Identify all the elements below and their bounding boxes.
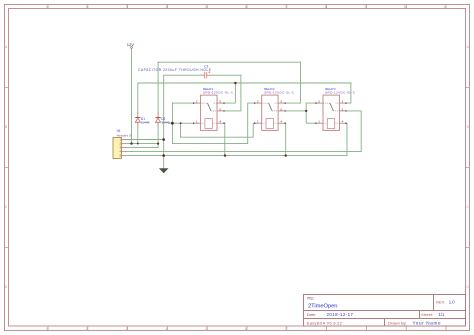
relay3 pin numbers <box>318 100 343 124</box>
svg-text:3: 3 <box>126 5 128 9</box>
svg-text:6: 6 <box>245 327 247 331</box>
wire relay1 pin1 left <box>172 122 193 124</box>
wire 12V vertical <box>131 49 133 144</box>
wire relay2 pin5 <box>286 110 307 112</box>
svg-text:4: 4 <box>166 5 168 9</box>
wire relay3 pin3 riser <box>347 83 351 103</box>
svg-text:Date:: Date: <box>307 312 317 317</box>
junction relay1 pin1 branch <box>180 122 182 124</box>
relay1 pins 1-5 stubs <box>193 103 225 123</box>
svg-text:3: 3 <box>126 327 128 331</box>
svg-text:EasyEDA V5.9.22: EasyEDA V5.9.22 <box>307 320 343 325</box>
power flag 12V <box>127 42 134 48</box>
junction relay1 pin1 net <box>171 122 174 125</box>
svg-text:2: 2 <box>86 5 88 9</box>
svg-text:SRD-12VDC-SL-C: SRD-12VDC-SL-C <box>203 90 234 94</box>
wire rail D1 y83 <box>138 82 351 84</box>
svg-text:B: B <box>5 125 7 129</box>
svg-text:5: 5 <box>205 5 207 9</box>
wire relay1 pin2 left <box>172 103 193 144</box>
wire header pin1 row <box>126 139 164 141</box>
wire header pin2 row <box>126 143 158 145</box>
svg-text:1: 1 <box>46 327 48 331</box>
wire header pin4 row to relay3 pin5 <box>126 111 361 152</box>
svg-text:1: 1 <box>46 5 48 9</box>
relay RELAY1 <box>193 95 225 130</box>
svg-text:Sheet:: Sheet: <box>421 312 434 317</box>
svg-text:7: 7 <box>285 327 287 331</box>
wire U2 bottom <box>172 103 254 144</box>
junction GND pin5 <box>162 154 165 157</box>
wire stub near junction <box>169 122 173 124</box>
relay1 pin numbers <box>196 100 221 124</box>
svg-text:1N4448: 1N4448 <box>161 121 170 125</box>
title block texts <box>307 296 315 300</box>
svg-text:SRD-12VDC-SL-C: SRD-12VDC-SL-C <box>325 90 356 94</box>
junction D2 anode <box>157 143 159 145</box>
relay RELAY3 <box>315 95 346 130</box>
wire relay3 pin2 pin1 link <box>306 103 315 123</box>
relay3 switch contacts <box>323 103 339 123</box>
svg-text:1.0: 1.0 <box>449 299 455 304</box>
wire gnd vertical <box>163 75 165 168</box>
svg-text:TITLE:: TITLE: <box>307 296 315 300</box>
junction relay1 pin3 rail <box>234 82 236 84</box>
svg-text:6: 6 <box>245 5 247 9</box>
wire cap to relay1 pin5 <box>225 75 241 111</box>
wire D1 vertical upper <box>137 83 139 112</box>
wire rail D2-top y62 <box>158 61 300 63</box>
relay3 pins 1-5 stubs <box>315 103 346 123</box>
svg-text:Header 5: Header 5 <box>117 133 132 137</box>
relay RELAY2 <box>254 95 286 130</box>
svg-text:H1: H1 <box>117 129 121 133</box>
header H1 pin numbers <box>119 138 121 158</box>
diode D1 <box>135 112 140 125</box>
wire cap rail y75 right <box>211 74 241 76</box>
junction relay2 pin5 relay3 <box>305 110 307 112</box>
junction relay2 pin4 gnd <box>285 154 287 156</box>
svg-text:CAPACITOR 2200uF THROUGH HOLE: CAPACITOR 2200uF THROUGH HOLE <box>138 68 211 72</box>
svg-text:4: 4 <box>166 327 168 331</box>
wire D2 vertical upper <box>157 62 159 112</box>
junction D1 anode <box>137 143 139 145</box>
wire D2 vertical lower <box>157 126 159 144</box>
svg-text:Drawn By:: Drawn By: <box>388 320 407 325</box>
svg-text:2: 2 <box>86 327 88 331</box>
relay2 pin endpoints <box>254 102 286 124</box>
svg-text:10: 10 <box>403 5 407 9</box>
relay2 coil <box>266 119 273 129</box>
svg-text:7: 7 <box>285 5 287 9</box>
svg-text:Your Name: Your Name <box>413 321 441 326</box>
capacitor C1 <box>201 71 211 78</box>
wire relay1 pin4 down <box>224 123 226 155</box>
svg-text:12V: 12V <box>127 42 134 47</box>
wire relay1 pin3 riser <box>225 83 236 103</box>
svg-text:2TimeOpen: 2TimeOpen <box>308 304 338 310</box>
relay3 pin endpoints <box>315 102 346 124</box>
diode D2 <box>156 112 161 125</box>
svg-text:SRD-12VDC-SL-C: SRD-12VDC-SL-C <box>264 90 295 94</box>
wire U1 relay1 pin1 down <box>181 123 255 137</box>
relay1 pin endpoints <box>193 102 225 124</box>
svg-text:1/1: 1/1 <box>439 312 445 317</box>
svg-text:B: B <box>467 125 469 129</box>
svg-text:5: 5 <box>205 327 207 331</box>
relay1 coil <box>205 119 212 129</box>
ground <box>159 168 169 173</box>
wire relay2 pin4 down <box>285 123 287 155</box>
relay2 pin numbers <box>257 100 282 124</box>
svg-text:1N4448: 1N4448 <box>141 121 150 125</box>
relay3 coil <box>327 119 334 129</box>
header H1 pins 1-5 stubs <box>122 140 127 156</box>
svg-text:2018-12-17: 2018-12-17 <box>327 312 354 317</box>
wire relay3 pin4 down <box>346 123 348 155</box>
svg-text:9: 9 <box>365 5 367 9</box>
junction 12V pin2 <box>130 142 132 144</box>
wire cap rail y75 left <box>164 74 201 76</box>
svg-text:8: 8 <box>325 5 327 9</box>
title block <box>304 295 466 327</box>
relay1 switch contacts <box>201 103 217 123</box>
wire header pin3 row <box>126 144 158 148</box>
relay2 switch contacts <box>262 103 278 123</box>
junction GND pin1 <box>162 138 165 141</box>
svg-text:REV:: REV: <box>436 300 445 304</box>
wire relay2 pin3 <box>286 62 301 103</box>
relay2 pins 1-5 stubs <box>254 103 286 123</box>
wire D1 vertical lower <box>137 126 139 144</box>
wire ground rail pin5 row <box>126 155 347 157</box>
junction relay1 pin4 gnd <box>224 154 226 156</box>
header H1 <box>113 138 126 159</box>
svg-text:11: 11 <box>443 5 447 9</box>
